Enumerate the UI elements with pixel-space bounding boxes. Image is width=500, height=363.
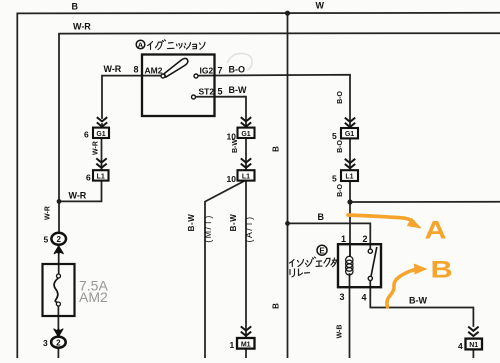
svg-text:L1: L1 [97, 173, 105, 180]
svg-text:B-O: B-O [337, 140, 344, 153]
svg-text:W-B: W-B [337, 325, 344, 339]
splice arrows above left G1 [97, 117, 107, 126]
svg-text:5: 5 [332, 174, 337, 184]
svg-text:B: B [431, 256, 453, 283]
svg-text:A: A [425, 216, 447, 244]
wire B-W (A/T) from L1(10) straight down to M1 [245, 181, 247, 338]
wire B-W (M/T) diagonal branch then down to bottom edge [205, 181, 245, 358]
svg-text:2: 2 [56, 235, 61, 244]
circled A designator [136, 40, 145, 49]
svg-text:B-W: B-W [409, 296, 427, 306]
svg-text:3: 3 [340, 292, 345, 302]
svg-text:B: B [272, 146, 281, 152]
splice arrows above connector N1 [468, 327, 478, 336]
wire B-W segment middle G1 to L1 [245, 138, 247, 170]
ignition switch contact AM2 (pivot) [161, 74, 165, 78]
connector G1 right (pin 5) [332, 128, 358, 141]
svg-text:G1: G1 [241, 131, 250, 138]
svg-text:5: 5 [332, 131, 337, 141]
svg-text:G1: G1 [96, 131, 105, 138]
wire below lower ellipse to bottom edge [57, 348, 59, 358]
connector G1 left (pin 6) [84, 128, 109, 140]
svg-text:B: B [72, 2, 79, 12]
svg-text:W-R: W-R [93, 141, 100, 155]
wire B-O from ignition IG2 pin 7 right then down [198, 75, 350, 128]
junction dot B-O at (350,202) [347, 199, 352, 204]
svg-text:M1: M1 [241, 341, 251, 348]
ignition switch contact ST2 [192, 95, 196, 99]
svg-text:4: 4 [458, 341, 463, 351]
svg-text:7: 7 [218, 66, 223, 76]
wire W-R segment into G1(6) [101, 124, 103, 128]
annotation orange arrow A [348, 215, 413, 222]
connector circle 2 (pin 3) below fuse [43, 337, 66, 348]
connector L1 middle (pin 10) [227, 170, 255, 184]
wire fuse chain: ellipse to fuse box [58, 245, 60, 276]
splice arrows above middle G1 [241, 117, 251, 126]
junction dot W-R at (59,201) [57, 199, 62, 204]
svg-text:B-O: B-O [337, 184, 344, 197]
fuse 7.5A AM2 box [43, 264, 75, 316]
connector arrow pointing up into circle 2 [54, 246, 63, 254]
ignition switch contact IG2 [194, 74, 198, 78]
svg-text:2: 2 [56, 338, 61, 347]
svg-text:ST2: ST2 [199, 87, 215, 97]
svg-text:B-W: B-W [187, 214, 196, 232]
svg-text:A: A [138, 40, 144, 49]
svg-text:N1: N1 [469, 342, 478, 349]
splice arrows above connector M1 [241, 326, 251, 335]
svg-text:B: B [318, 212, 325, 222]
svg-text:5: 5 [44, 235, 49, 245]
svg-text:8: 8 [134, 65, 139, 75]
splice arrows above right G1 [345, 118, 355, 127]
svg-text:1: 1 [230, 340, 235, 350]
relay switch contact bottom (pin 4) [368, 276, 372, 280]
svg-text:AM2: AM2 [79, 289, 108, 305]
wire bus W-R second L (horizontal + vertical to fuse chain) [59, 33, 500, 232]
svg-text:B: B [272, 303, 281, 309]
splice arrows above right L1 [345, 159, 355, 168]
relay switch blade (open) [371, 247, 377, 276]
svg-text:1: 1 [341, 234, 346, 244]
connector L1 right (pin 5) [332, 170, 358, 183]
svg-text:W-R: W-R [45, 206, 52, 220]
svg-text:10: 10 [227, 174, 237, 184]
wire W-R from ignition AM2 pin 8 going left then down [102, 76, 161, 118]
fuse element S-curve with terminals [57, 274, 61, 278]
wire vertical net B (x=287) [287, 13, 289, 358]
svg-text:3: 3 [43, 338, 48, 348]
wire below connector N1 to bottom edge [472, 350, 474, 358]
svg-text:B-O: B-O [337, 91, 344, 104]
wire B-O from L1(5) down to relay pin 1 coil [349, 181, 351, 256]
svg-text:6: 6 [86, 172, 91, 182]
svg-text:L1: L1 [345, 174, 353, 181]
svg-text:L1: L1 [242, 173, 250, 180]
svg-text:B-W: B-W [229, 85, 247, 95]
svg-text:W-R: W-R [73, 22, 91, 32]
wire B branch from x=287 to relay pin 2 [288, 223, 371, 249]
faint pencil smudge around B-O [227, 53, 252, 70]
svg-text:(A/T): (A/T) [244, 216, 254, 243]
svg-text:B-W: B-W [232, 139, 239, 153]
connector arrow pointing down into circle 2 (pin 3) [54, 329, 63, 337]
wire fuse box bottom to lower ellipse [57, 304, 59, 337]
wire relay pin 3 W-B down to bottom edge [349, 274, 351, 358]
svg-text:E: E [319, 246, 325, 255]
connector N1 (pin 4) [458, 339, 482, 351]
label インジェクタ (injector) hand-drawn kana [290, 257, 337, 267]
connector L1 left (pin 6) [86, 170, 109, 182]
junction dot top bus at x=287 [285, 11, 290, 16]
label リレー hand-drawn kana [290, 269, 310, 277]
svg-text:4: 4 [362, 293, 367, 303]
splice arrows above left L1 [96, 158, 106, 167]
splice arrows above middle L1 [241, 158, 251, 167]
svg-text:W-R: W-R [69, 191, 87, 201]
relay coil (pins 1-3) [346, 256, 353, 275]
connector circle 2 (pin 5) above fuse [44, 233, 67, 245]
svg-text:IG2: IG2 [200, 66, 214, 76]
wire relay pin 4 B-W down right to N1 [370, 281, 473, 327]
junction dot B at (287,223) [285, 221, 290, 226]
svg-text:B-W: B-W [229, 214, 238, 232]
wire B-W from ignition ST2 pin 5 right then down to G1(10) [196, 97, 246, 128]
relay switch contact top (pin 2) [368, 249, 372, 253]
wire branch A: B-O junction going right to edge [350, 201, 500, 203]
wire B-O segment right G1 to L1 [349, 138, 351, 170]
annotation orange arrow B [387, 270, 416, 308]
svg-text:B-O: B-O [229, 65, 246, 75]
ignition switch lever (wedge) [164, 58, 188, 77]
label イグニッション (ignition) hand-drawn kana [148, 40, 206, 50]
circled E designator [317, 245, 327, 255]
connector M1 (pin 1) [230, 338, 255, 350]
relay E injector relay box [338, 244, 381, 287]
connector G1 middle (pin 10) [227, 128, 255, 142]
svg-text:AM2: AM2 [145, 66, 163, 76]
svg-text:W: W [316, 1, 325, 11]
svg-text:(M/T): (M/T) [203, 214, 213, 243]
relay coil feed stubs [349, 244, 351, 256]
svg-text:W-R: W-R [104, 64, 122, 74]
svg-text:5: 5 [218, 87, 223, 97]
svg-text:2: 2 [363, 234, 368, 244]
wire W-R segment G1 to L1 left column [101, 138, 103, 170]
wire below connector M1 to bottom edge [245, 349, 247, 358]
wire W-R from L1(6) down then left to junction on x=59 [59, 181, 102, 202]
ignition switch A box [142, 55, 215, 117]
svg-text:G1: G1 [345, 131, 354, 138]
svg-text:6: 6 [84, 130, 89, 140]
